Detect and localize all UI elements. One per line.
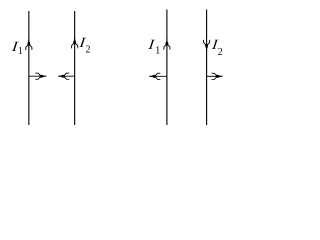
wire W4 (right pair, current I2 downward) [206, 10, 208, 126]
force arrow on W1 pointing right (attraction) [29, 73, 47, 79]
current arrowhead I1 up on wire W1 [26, 39, 32, 50]
force arrow on W4 pointing right (repulsion) [207, 73, 223, 79]
wire W2 (left pair, current I2 upward) [74, 11, 76, 125]
svg-text:2: 2 [218, 47, 223, 58]
current arrowhead I1 up on wire W3 [164, 39, 170, 50]
current arrowhead I2 down on wire W4 [204, 40, 210, 51]
wire W1 (left pair, current I1 upward) [28, 11, 30, 125]
force arrow on W3 pointing left (repulsion) [149, 73, 167, 79]
svg-text:1: 1 [18, 46, 23, 57]
label I1 (right pair) [147, 37, 161, 56]
force arrow on W2 pointing left (attraction) [58, 73, 74, 79]
svg-text:2: 2 [86, 45, 91, 56]
label I1 (left pair) [10, 40, 23, 57]
svg-text:1: 1 [155, 45, 160, 56]
label I2 (right pair) [210, 37, 223, 58]
label I2 (left pair) [78, 36, 91, 56]
wire W3 (right pair, current I1 upward) [166, 10, 168, 126]
current arrowhead I2 up on wire W2 [72, 37, 78, 48]
